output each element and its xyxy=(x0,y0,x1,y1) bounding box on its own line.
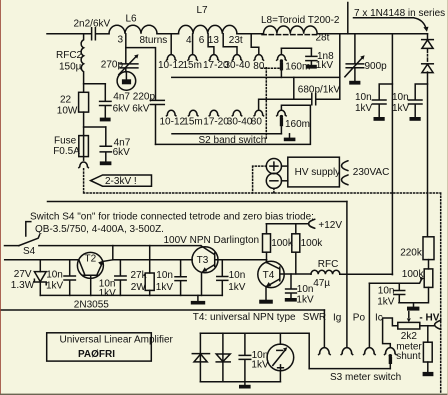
wire 680p branch xyxy=(259,77,312,109)
svg-text:17-20: 17-20 xyxy=(203,117,229,128)
connector -HV xyxy=(435,320,441,329)
wire 1n8 feed xyxy=(281,47,311,49)
svg-text:6kV: 6kV xyxy=(113,104,131,115)
fuse F0.5A xyxy=(53,135,88,160)
socket 17-20 row2 xyxy=(209,110,219,116)
socket 30-40 row1 xyxy=(232,55,242,61)
svg-text:6kV: 6kV xyxy=(132,104,150,115)
labels band row2 xyxy=(160,117,311,131)
svg-text:L6: L6 xyxy=(126,14,138,25)
tap wire 3t to 270p xyxy=(125,34,127,63)
ground 900p xyxy=(349,81,360,85)
diode meter down xyxy=(216,354,230,362)
label 4 xyxy=(186,35,192,46)
svg-text:1kV: 1kV xyxy=(316,60,334,71)
svg-text:1kV: 1kV xyxy=(46,281,64,292)
svg-text:6kV: 6kV xyxy=(113,147,131,158)
bracket pointer xyxy=(26,222,31,236)
resistor 22 10W xyxy=(57,92,89,116)
svg-text:T4: T4 xyxy=(263,270,275,281)
svg-text:15m: 15m xyxy=(183,60,202,71)
svg-text:30-40: 30-40 xyxy=(225,60,251,71)
svg-text:2k2: 2k2 xyxy=(401,331,418,342)
label 3 turns tap xyxy=(118,35,124,46)
wire table separator xyxy=(0,309,324,311)
resistor 27k 2W xyxy=(131,246,155,296)
label T4 universal NPN type xyxy=(193,312,296,323)
label 23t xyxy=(229,35,243,46)
ground 10n A xyxy=(374,117,385,121)
label SWR xyxy=(303,312,326,323)
transistor T3 darlington xyxy=(192,246,218,296)
socket 10-12 row2 xyxy=(166,110,176,116)
wire L7 to L8 xyxy=(237,33,264,35)
svg-text:Ig: Ig xyxy=(333,313,341,324)
plug 160m row1 xyxy=(280,59,283,77)
wire cathode line right xyxy=(391,34,393,275)
wire Po drop xyxy=(368,283,370,347)
svg-text:6: 6 xyxy=(199,35,205,46)
wire +12V rail xyxy=(266,223,308,225)
inductor L7 xyxy=(179,5,237,34)
diode D2 of string xyxy=(422,64,434,73)
svg-text:S2 band switch: S2 band switch xyxy=(199,135,267,146)
label S2 band switch xyxy=(199,135,267,146)
wire 2k2 left to Ic socket xyxy=(383,318,398,347)
svg-text:2W: 2W xyxy=(131,282,147,293)
dotted switch linkage xyxy=(262,68,280,140)
resistor 100k r1 xyxy=(263,224,294,263)
transistor T2 2N3055 xyxy=(77,252,112,295)
label Ic xyxy=(375,313,383,324)
capacitor 10n/1kV no3 xyxy=(156,260,186,296)
svg-text:30-40: 30-40 xyxy=(227,117,253,128)
svg-text:10n: 10n xyxy=(392,92,409,103)
svg-text:22: 22 xyxy=(60,94,72,105)
svg-text:1kV: 1kV xyxy=(228,282,246,293)
svg-text:2-3kV !: 2-3kV ! xyxy=(105,176,137,187)
wire T4 base line xyxy=(281,273,311,275)
socket Ic xyxy=(385,348,397,355)
svg-text:47µ: 47µ xyxy=(313,278,330,289)
socket 10-12 row1 xyxy=(166,55,176,61)
label tube types xyxy=(35,224,164,235)
svg-text:10-12: 10-12 xyxy=(158,60,184,71)
svg-text:1kV: 1kV xyxy=(156,282,174,293)
svg-text:3: 3 xyxy=(118,35,124,46)
ground meter circuit xyxy=(239,382,251,389)
label 230VAC xyxy=(353,167,390,178)
socket 160m row1 xyxy=(277,55,287,61)
svg-text:RFC2: RFC2 xyxy=(56,50,83,61)
capacitor 680p/1kV xyxy=(298,85,341,105)
svg-text:T3: T3 xyxy=(197,255,209,266)
ground 10n T4 xyxy=(285,298,297,302)
wire meter left xyxy=(199,333,201,382)
wire ground bus xyxy=(40,294,222,296)
potentiometer 100k xyxy=(402,269,433,288)
ground row2 160m xyxy=(284,134,296,141)
plug 160m row2 xyxy=(280,115,283,134)
socket 160m row2 xyxy=(277,110,287,116)
wire T2 emitter riser xyxy=(112,246,114,260)
svg-text:PAØFRI: PAØFRI xyxy=(78,349,115,360)
connector +12V xyxy=(309,219,343,231)
svg-text:1kV: 1kV xyxy=(296,295,314,306)
arrow to diode string xyxy=(414,18,429,32)
svg-text:S4: S4 xyxy=(23,246,36,257)
ground 1n8 xyxy=(306,65,317,69)
wire row2 common xyxy=(172,133,281,135)
svg-text:shunt: shunt xyxy=(396,351,421,362)
svg-text:27k: 27k xyxy=(131,270,148,281)
label minus HV xyxy=(419,312,439,323)
variable capacitor 270p xyxy=(101,54,139,74)
connector 230VAC upper xyxy=(342,161,349,171)
svg-text:2n2/6kV: 2n2/6kV xyxy=(74,18,111,29)
svg-text:SWR: SWR xyxy=(303,312,326,323)
wire anode node xyxy=(84,83,106,85)
svg-text:T2: T2 xyxy=(85,253,97,264)
inductor L6 xyxy=(109,14,157,34)
resistor 100k r2 xyxy=(292,224,323,274)
svg-text:8turns: 8turns xyxy=(140,35,168,46)
svg-text:1kV: 1kV xyxy=(392,103,410,114)
wire diode2 drop xyxy=(222,333,224,382)
switch S4 xyxy=(5,235,40,257)
socket 30-40 row2 xyxy=(232,110,242,116)
svg-text:10W: 10W xyxy=(57,106,78,117)
svg-text:1.3W: 1.3W xyxy=(11,280,35,291)
wire rotor bus row1 xyxy=(172,76,340,78)
wire meter bottom xyxy=(200,381,280,383)
svg-text:1kV: 1kV xyxy=(251,360,269,371)
ground pot node xyxy=(407,303,419,311)
socket 80 row1 xyxy=(254,55,264,61)
socket 17-20 row1 xyxy=(209,55,219,61)
title text xyxy=(60,334,174,345)
capacitor 10n/1kV T4 xyxy=(286,274,314,306)
svg-text:150µ: 150µ xyxy=(59,62,82,73)
socket Po xyxy=(364,348,376,355)
wire pot bottom node xyxy=(399,287,429,302)
svg-text:80: 80 xyxy=(253,61,265,72)
transistor T4 universal NPN xyxy=(258,260,284,300)
capacitor 10n/1kV no4 xyxy=(217,260,246,296)
svg-text:23t: 23t xyxy=(229,35,243,46)
wire meter top xyxy=(200,333,309,368)
svg-text:10n: 10n xyxy=(229,270,246,281)
box HV supply xyxy=(288,157,340,187)
ground 10n B xyxy=(410,117,421,121)
wire node to 4n7 lower xyxy=(84,126,106,128)
wire SWR drop xyxy=(323,310,325,347)
capacitor 10n/1kV no1 xyxy=(46,260,75,296)
capacitor 1n8/1kV xyxy=(306,48,334,71)
svg-text:10-12: 10-12 xyxy=(160,117,186,128)
meter M1 xyxy=(267,333,294,382)
svg-text:900p: 900p xyxy=(365,61,388,72)
zener 27V 1.3W xyxy=(11,260,46,296)
wire 2k2 right to -HV xyxy=(420,325,435,327)
terminal plus xyxy=(266,159,288,174)
terminal minus xyxy=(266,173,288,188)
wire to L6 xyxy=(96,33,109,35)
svg-text:1kV: 1kV xyxy=(355,103,373,114)
svg-text:L8=Toroid T200-2: L8=Toroid T200-2 xyxy=(261,15,340,26)
tag 2-3kV xyxy=(91,175,152,187)
label 2N3055 xyxy=(74,299,109,310)
svg-text:680p/1kV: 680p/1kV xyxy=(298,85,341,96)
svg-text:HV supply: HV supply xyxy=(295,167,341,178)
wire grid line long xyxy=(48,201,347,203)
resistor 220k xyxy=(400,237,434,260)
wire S4 to T3 xyxy=(39,245,201,247)
capacitor 10n/1kV B xyxy=(392,84,428,117)
svg-text:100k: 100k xyxy=(301,238,324,249)
title box xyxy=(47,333,152,361)
tap wire 10-12 xyxy=(170,34,172,55)
svg-text:160m: 160m xyxy=(285,119,310,130)
wire L8 to HV node xyxy=(317,33,427,35)
tap wire 17-20 xyxy=(208,34,214,55)
inductor L8 toroid xyxy=(261,15,340,34)
svg-text:27V: 27V xyxy=(14,269,32,280)
wire grid bus left xyxy=(5,259,79,261)
svg-text:10n: 10n xyxy=(156,270,173,281)
capacitor 10n/1kV no2 xyxy=(99,260,127,299)
svg-text:F0.5A: F0.5A xyxy=(53,146,80,157)
svg-text:10n: 10n xyxy=(378,285,395,296)
connector 230VAC lower xyxy=(342,175,349,185)
ground 4n7 lower xyxy=(100,161,112,165)
inductor RFC2 xyxy=(56,34,84,93)
socket HV feed xyxy=(79,162,89,168)
capacitor 10n/1kV meter2 xyxy=(239,333,269,382)
svg-text:T4: universal NPN type: T4: universal NPN type xyxy=(193,312,296,323)
svg-text:220k: 220k xyxy=(400,248,423,259)
ground 4n7 upper xyxy=(100,118,111,122)
label 8turns xyxy=(140,35,168,46)
label 4n7 220p xyxy=(0,0,1,1)
capacitor 10n/1kV meter xyxy=(377,283,405,307)
tap wire 15m xyxy=(192,34,194,55)
svg-text:Ic: Ic xyxy=(375,313,383,324)
title PA0FRI xyxy=(78,349,115,360)
diode D1 of string xyxy=(422,40,434,49)
socket 15m row1 xyxy=(188,55,198,61)
wire L6 to L7 xyxy=(157,33,179,35)
wire 220k to 100k pot xyxy=(428,260,430,269)
capacitor 2n2/6kV xyxy=(74,18,111,39)
svg-text:13: 13 xyxy=(208,35,220,46)
ground bus xyxy=(191,295,205,304)
label switch S4 note xyxy=(30,212,314,223)
box S2 left-bottom-right xyxy=(156,105,311,144)
label 6 xyxy=(199,35,205,46)
svg-text:1kV: 1kV xyxy=(377,297,395,308)
svg-text:220p: 220p xyxy=(133,92,156,103)
svg-text:80: 80 xyxy=(251,117,263,128)
wire diode string top xyxy=(427,34,429,40)
labels band row1 xyxy=(158,60,265,72)
wire resistor to fuse xyxy=(83,112,85,136)
wire T3 base to T4 xyxy=(216,259,267,261)
svg-text:Universal Linear Amplifier: Universal Linear Amplifier xyxy=(60,334,174,345)
dotted HV minus link xyxy=(273,189,275,194)
tap wire 80 xyxy=(251,34,259,55)
svg-text:Fuse: Fuse xyxy=(54,135,77,146)
label 28t xyxy=(316,33,330,44)
socket SWR xyxy=(319,348,331,355)
label 7 x 1N4148 xyxy=(354,8,446,19)
wire Ig drop xyxy=(346,202,348,348)
capacitor 10n/1kV A xyxy=(355,84,392,117)
wire diode string down xyxy=(427,72,429,237)
svg-text:2N3055: 2N3055 xyxy=(74,299,109,310)
diode meter up xyxy=(192,354,209,362)
label 100V NPN Darlington xyxy=(164,235,260,246)
svg-text:10n: 10n xyxy=(297,284,314,295)
wire 160m link top xyxy=(280,48,282,54)
svg-text:1kV: 1kV xyxy=(99,288,117,299)
svg-text:Po: Po xyxy=(353,313,366,324)
svg-text:S3 meter switch: S3 meter switch xyxy=(330,372,401,383)
svg-text:270p: 270p xyxy=(101,59,124,70)
wire riser top right xyxy=(347,3,349,34)
wire grid bus mid xyxy=(113,259,192,261)
resistor meter shunt xyxy=(396,326,432,372)
inductor RFC 47u xyxy=(311,259,340,289)
wire RFC to cathode line xyxy=(340,273,393,275)
svg-text:4n7: 4n7 xyxy=(113,92,130,103)
svg-text:4: 4 xyxy=(186,35,192,46)
label Po xyxy=(353,313,366,324)
svg-text:100k: 100k xyxy=(271,238,294,249)
svg-text:15m: 15m xyxy=(183,117,202,128)
label Ig xyxy=(333,313,341,324)
ground T4 emitter xyxy=(259,300,273,304)
svg-text:10n: 10n xyxy=(46,270,63,281)
capacitor 4n7/6kV upper xyxy=(100,84,131,118)
tube anode symbol xyxy=(117,72,136,91)
plug Ic S3 xyxy=(389,354,393,369)
socket 80 row2 xyxy=(254,110,264,116)
svg-text:100V NPN Darlington: 100V NPN Darlington xyxy=(164,235,260,246)
capacitor 4n7/6kV lower xyxy=(100,127,131,161)
svg-text:RFC: RFC xyxy=(318,259,339,270)
dotted HV cable xyxy=(84,169,441,393)
capacitor 220p/6kV xyxy=(132,92,164,145)
ground meter shunt xyxy=(423,372,434,376)
dotted HV plus link xyxy=(253,166,267,193)
label 13 xyxy=(208,35,220,46)
label S3 meter switch xyxy=(330,372,401,383)
wire wiper to Po line xyxy=(369,279,421,283)
variable capacitor 900p xyxy=(345,34,387,81)
wire S3 common xyxy=(309,368,390,370)
label 160m row1 xyxy=(285,62,310,73)
svg-text:Switch S4 "on" for triode conn: Switch S4 "on" for triode connected tetr… xyxy=(30,212,314,223)
wire 680p to L8 output xyxy=(316,34,340,99)
socket Ig xyxy=(341,348,353,355)
svg-text:10n: 10n xyxy=(355,92,372,103)
svg-text:+12V: +12V xyxy=(318,220,342,231)
svg-text:QB-3.5/750, 4-400A, 3-500Z.: QB-3.5/750, 4-400A, 3-500Z. xyxy=(35,224,164,235)
dash-dot more diodes xyxy=(427,50,429,64)
socket 15m row2 xyxy=(188,110,198,116)
svg-text:L7: L7 xyxy=(197,5,209,16)
potentiometer 2k2 xyxy=(398,312,420,342)
tap wire 30-40 xyxy=(223,34,237,55)
wire tap-T to 220p column xyxy=(126,48,156,100)
svg-text:230VAC: 230VAC xyxy=(353,167,390,178)
wire input line xyxy=(47,33,91,35)
